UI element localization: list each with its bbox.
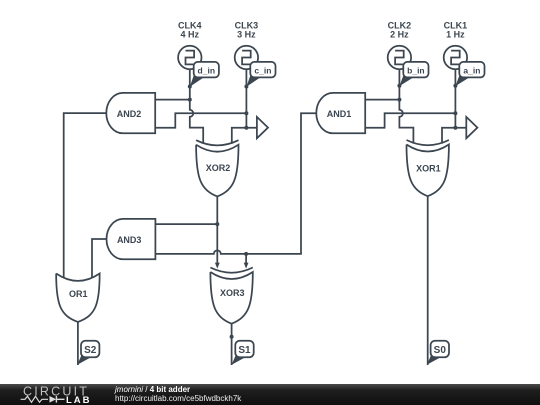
wire a_in column: [454, 70, 456, 128]
footer bar: [0, 384, 540, 405]
svg-text:AND1: AND1: [327, 109, 352, 119]
credit line 2: [115, 394, 241, 403]
svg-text:b_in: b_in: [407, 65, 424, 75]
junction dot c_in anchor: [244, 85, 248, 89]
buffer triangle right: [466, 117, 477, 138]
xor-gate XOR3: [210, 268, 252, 273]
flag a_in: [455, 62, 484, 86]
logo resistor zigzag: [21, 396, 48, 402]
svg-text:LAB: LAB: [66, 395, 92, 405]
wire c_in column: [245, 70, 247, 128]
wire AND3 output to OR1 input 2: [92, 239, 106, 278]
svg-text:c_in: c_in: [254, 65, 271, 75]
junction dot c_in jog rail: [244, 111, 248, 115]
clock source CLK2: [388, 46, 411, 69]
flag b_in: [399, 62, 428, 86]
and-gate AND3: [107, 219, 156, 259]
junction dot d_in anchor: [188, 85, 192, 89]
wire b_in column with hop over jog rail: [399, 70, 413, 144]
svg-text:3 Hz: 3 Hz: [237, 30, 256, 40]
wire a_in rail to XOR1 right input and buffer: [442, 128, 466, 144]
buffer triangle left: [257, 117, 268, 138]
wire d_in column with hop over jog rail: [190, 70, 203, 144]
svg-text:AND3: AND3: [117, 235, 142, 245]
junction dot a_in lower rail: [453, 126, 457, 130]
svg-text:2 Hz: 2 Hz: [390, 30, 409, 40]
flag S2: [77, 341, 99, 365]
svg-text:S0: S0: [434, 345, 447, 356]
svg-text:4 Hz: 4 Hz: [181, 30, 200, 40]
wire XOR1 output to S0: [427, 196, 429, 365]
svg-text:AND2: AND2: [117, 109, 142, 119]
wire AND3 top input from XOR2 output: [155, 223, 217, 225]
wire XOR3 output to S1: [231, 324, 233, 366]
wire OR1 output to S2: [77, 322, 79, 365]
arrowhead XOR3 right input: [244, 263, 249, 269]
wire AND2 bottom input jog from c_in: [155, 113, 246, 128]
wire AND2 top input from d_in: [155, 99, 190, 101]
clock source CLK3: [235, 46, 258, 69]
wire XOR2 output down to XOR3 left input: [216, 196, 218, 263]
svg-text:XOR1: XOR1: [416, 164, 441, 174]
credit line 1: [115, 385, 190, 394]
svg-text:XOR2: XOR2: [206, 163, 231, 173]
junction dot AND2 top input: [188, 98, 192, 102]
junction dot XOR2 out / AND3 input: [215, 222, 219, 226]
flag c_in: [246, 62, 275, 87]
svg-text:OR1: OR1: [69, 289, 88, 299]
junction dot a_in jog rail: [453, 111, 457, 115]
junction dot a_in anchor: [453, 84, 457, 88]
flag S0: [427, 341, 449, 365]
logo diode: [50, 396, 57, 403]
clock source CLK1: [444, 46, 467, 69]
wire XOR3 right input from carry: [245, 254, 247, 263]
svg-text:S1: S1: [238, 345, 251, 356]
wire AND1 output carry to AND3 bottom input with hop: [155, 113, 316, 254]
junction dot c_in lower rail: [244, 126, 248, 130]
wire AND1 top input from b_in: [365, 99, 399, 101]
and-gate AND1: [316, 93, 365, 133]
wire AND1 bottom input jog from a_in: [365, 113, 455, 128]
svg-text:XOR3: XOR3: [220, 288, 245, 298]
flag S1: [232, 341, 254, 365]
svg-text:1 Hz: 1 Hz: [446, 30, 465, 40]
clock source CLK4: [178, 46, 201, 69]
wire c_in rail to XOR2 right input and buffer: [232, 128, 257, 144]
xor-gate XOR2: [196, 140, 238, 145]
junction dot carry / XOR3 right input: [244, 252, 248, 256]
svg-text:a_in: a_in: [463, 65, 480, 75]
xor-gate XOR1: [407, 140, 449, 145]
svg-text:d_in: d_in: [198, 65, 215, 75]
junction dot AND1 top input: [397, 98, 401, 102]
junction dot S1 node: [230, 335, 234, 339]
and-gate AND2: [106, 93, 155, 133]
wire AND2 output to OR1 input 1: [64, 113, 106, 278]
junction dot b_in anchor: [397, 84, 401, 88]
or-gate OR1: [56, 274, 100, 322]
arrowhead XOR3 left input: [215, 263, 220, 269]
flag d_in: [190, 62, 219, 87]
svg-text:S2: S2: [84, 345, 97, 356]
